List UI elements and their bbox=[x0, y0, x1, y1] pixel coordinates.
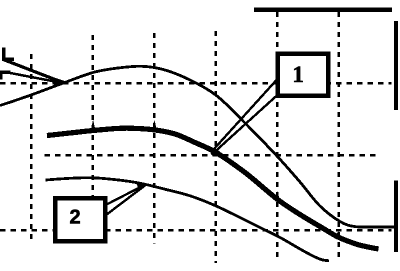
vertical gridline x=216 bbox=[215, 31, 218, 263]
vertical gridline x=31 bbox=[30, 54, 33, 244]
callout box 1 bbox=[278, 54, 328, 96]
leader line from upper left callout bbox=[4, 60, 62, 82]
wedge line from box 1 upper bbox=[214, 80, 277, 150]
leader line from lower left callout bbox=[10, 73, 61, 83]
vertical gridline x=338 bbox=[337, 12, 340, 262]
svg-text:2: 2 bbox=[70, 207, 81, 229]
marker tick on curve B at x=338 bbox=[335, 231, 341, 239]
curve C (thin bottom curve) bbox=[46, 178, 330, 261]
thick top rule bbox=[254, 8, 392, 12]
right bar upper bbox=[394, 21, 398, 110]
horizontal gridline y=230 bbox=[0, 229, 392, 232]
wedge line from box 1 lower bbox=[215, 94, 279, 152]
left partial callout upper: corner bars bbox=[2, 48, 6, 62]
wedge line from box 2 lower bbox=[106, 186, 145, 215]
junction blob on curve B at x=216 (wedge 1 tip) bbox=[211, 150, 221, 157]
left partial callout lower: corner bars bbox=[0, 71, 2, 80]
vertical gridline x=93 bbox=[92, 35, 95, 244]
marker tick on curve B at x=277 bbox=[274, 191, 280, 200]
curve A (thin top curve) bbox=[0, 66, 395, 227]
curve B (thick middle curve) bbox=[47, 128, 379, 249]
blob at wedge 2 tip on curve C bbox=[137, 184, 149, 189]
horizontal gridline y=155 bbox=[45, 154, 379, 157]
svg-text:1: 1 bbox=[292, 62, 304, 87]
marker tick on curve B at x=154 bbox=[152, 120, 157, 130]
wedge line from box 2 upper bbox=[106, 185, 145, 205]
callout box 2 bbox=[55, 198, 105, 241]
arrowhead blob at leader tip on curve A bbox=[54, 78, 68, 87]
vertical gridline x=277 bbox=[276, 12, 279, 261]
right bar lower bbox=[394, 180, 398, 252]
horizontal gridline y=83 bbox=[0, 82, 392, 85]
marker tick on curve B at x=93 bbox=[91, 120, 96, 132]
vertical gridline x=154 bbox=[153, 33, 156, 244]
